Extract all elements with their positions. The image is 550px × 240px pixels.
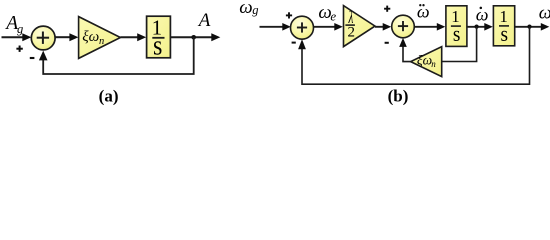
svg-text:ω: ω [239, 0, 252, 18]
gain triangle lambda/2 [344, 6, 376, 47]
integrator block 1/s B1 [446, 6, 467, 47]
integrator block 1/s (a) [147, 16, 171, 58]
wire B2 to output omega [515, 26, 542, 28]
label omega_e [318, 2, 336, 23]
arrowhead up into S2b bottom [399, 38, 407, 47]
arrowhead into gain triangle [69, 33, 78, 41]
svg-text:e: e [330, 8, 336, 23]
label omega double-dot [417, 1, 430, 21]
arrowhead into lambda/2 triangle [334, 23, 343, 31]
arrowhead into summing junction S1b [282, 23, 291, 31]
fraction bar (B2) [499, 25, 509, 27]
svg-text:ω: ω [476, 4, 489, 24]
svg-text:s: s [453, 23, 461, 46]
plus sign label (input Ag) [16, 46, 22, 52]
inner feedback wire: node to rate gain triangle [442, 27, 477, 62]
svg-text:s: s [501, 23, 509, 46]
arrowhead up into S1b bottom [298, 39, 306, 49]
wire B1 to B2 [467, 26, 486, 28]
arrowhead into S2b [383, 23, 392, 31]
svg-text:A: A [197, 10, 211, 31]
arrowhead into summing junction S1a [22, 33, 31, 41]
plus sign inside S1b [297, 22, 307, 32]
outer feedback wire (b): down, left, up [302, 27, 530, 84]
label omega_g [239, 0, 258, 18]
svg-text:n: n [99, 36, 104, 47]
wire block output to A [171, 36, 213, 38]
fraction bar lambda/2 [345, 24, 355, 26]
svg-text:s: s [153, 30, 162, 61]
node dot (b output) [527, 25, 531, 29]
node dot omega-dot tap [475, 25, 479, 29]
rate gain triangle xi*omega_n (b), points left [411, 47, 442, 77]
wire lambda/2 to summing junction S2b [375, 26, 384, 28]
arrowhead into B2 [484, 23, 493, 31]
minus sign label (feedback into S1a) [30, 57, 35, 59]
minus sign label (outer feedback into S1b) [292, 42, 296, 44]
wire input omega_g [260, 26, 284, 28]
label xi omega n inside rate triangle [417, 53, 436, 69]
node dot (a output) [191, 35, 196, 40]
summing junction S1b [291, 16, 314, 39]
svg-text:(a): (a) [99, 87, 119, 106]
plus sign inside S1a [37, 32, 49, 44]
plus sign label (input omega_g) [286, 12, 292, 18]
arrowhead up into S1a bottom [39, 51, 48, 61]
arrowhead into B1 [437, 23, 446, 31]
summing junction S1a [31, 26, 55, 50]
wire S1b to gain triangle lambda/2 [314, 26, 336, 28]
svg-text:n: n [431, 59, 436, 69]
arrowhead into integrator block (a) [137, 33, 146, 41]
feedback wire (a): down, left, up [43, 37, 194, 74]
wire input Ag [2, 36, 24, 38]
wire S2b to integrator block B1 [414, 26, 438, 28]
label xi omega n inside triangle [82, 29, 104, 47]
plus sign inside S2b [398, 21, 408, 31]
fraction bar (B1) [451, 25, 461, 27]
svg-text:(b): (b) [388, 87, 409, 106]
label omega dot [476, 4, 489, 24]
svg-text:ξω: ξω [417, 53, 432, 68]
plus sign label (into S2b) [384, 6, 390, 12]
output arrowhead (a) [211, 33, 220, 41]
wire S1a to gain triangle [55, 36, 71, 38]
svg-text:2: 2 [348, 25, 356, 41]
fraction bar (a) [152, 37, 164, 39]
wire triangle to integrator block (a) [120, 36, 138, 38]
svg-text:ξω: ξω [82, 29, 99, 45]
gain triangle xi*omega_n (a) [79, 17, 121, 59]
wire triangle tip up into S2b [403, 47, 411, 62]
label Ag [4, 13, 23, 36]
output arrowhead (b) [541, 23, 550, 31]
svg-text:ω: ω [539, 4, 550, 24]
svg-text:g: g [252, 3, 258, 17]
summing junction S2b [392, 15, 415, 38]
minus sign label (rate feedback into S2b) [385, 42, 389, 44]
integrator block 1/s B2 [493, 6, 514, 46]
